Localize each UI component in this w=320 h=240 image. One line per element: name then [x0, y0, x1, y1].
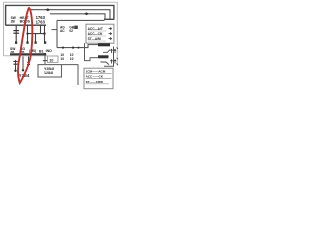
module box bottom edge — [6, 24, 46, 26]
dots on wire y47.5 — [62, 47, 64, 49]
junction dot on bus — [44, 53, 47, 56]
svg-text:10: 10 — [49, 58, 53, 62]
svg-text:ACC—A/T: ACC—A/T — [88, 27, 103, 31]
pin arrows row 2 — [110, 60, 112, 64]
svg-text:1763: 1763 — [36, 19, 46, 24]
switch contact 2 — [101, 62, 110, 65]
connector tick — [43, 60, 47, 62]
fuse symbol bottom-left — [13, 61, 17, 64]
svg-text:ST—A/M: ST—A/M — [88, 37, 101, 41]
small blob component — [74, 26, 78, 29]
svg-text:ACC——CK: ACC——CK — [86, 75, 104, 79]
wire x27.5 — [27, 24, 29, 41]
wire from long wire into bar2 — [85, 43, 91, 60]
horizontal wire y33.5 — [28, 33, 45, 35]
bottom right box — [84, 68, 113, 89]
right connector box — [86, 24, 114, 43]
wire B — [30, 10, 110, 20]
switch contact 1 — [103, 50, 110, 53]
module box top-left (dark border, wire A loop) — [6, 5, 114, 25]
junction diamond on wire B — [46, 8, 51, 11]
svg-text:IND: IND — [46, 49, 53, 53]
long wire y47.5 — [57, 44, 88, 47]
svg-text:02: 02 — [69, 29, 73, 33]
wire x35.5 — [35, 34, 37, 42]
svg-text:ST——CRW: ST——CRW — [86, 80, 104, 84]
svg-text:B1: B1 — [39, 50, 44, 54]
small fuse box — [48, 56, 59, 62]
wire to bottom area — [62, 65, 79, 85]
svg-text:2B: 2B — [11, 19, 16, 23]
pin arrows right edge — [117, 47, 118, 64]
pin dot — [22, 69, 24, 71]
svg-text:ACC—CK: ACC—CK — [88, 32, 103, 36]
junction dot x27.5 — [26, 33, 28, 35]
wire step into bar 1 — [88, 44, 99, 46]
svg-text:1284I: 1284I — [44, 71, 53, 75]
ignition switch bar 2 — [98, 55, 109, 58]
page frame (light outer border) — [4, 2, 118, 66]
pin dot — [14, 70, 16, 72]
switch symbol left — [15, 26, 17, 42]
wire stub into x57 — [52, 29, 58, 31]
wire x40.5 — [40, 24, 42, 33]
wire x45 down to relay box — [44, 54, 46, 64]
pin arrows row 1 — [110, 49, 112, 53]
svg-text:10: 10 — [70, 57, 74, 61]
highlight ellipse (red annotation) — [18, 8, 32, 83]
svg-text:1CM——ACM: 1CM——ACM — [86, 70, 106, 74]
wire x44.5 — [44, 26, 46, 42]
relay box 1284 — [38, 65, 62, 77]
pin dot row y42.5 — [15, 41, 17, 43]
wire right vertical x113.5 — [104, 47, 114, 67]
component x28.5 — [28, 56, 30, 66]
svg-text:(2B): (2B) — [29, 49, 37, 53]
branch wire vertical x57 — [56, 20, 58, 47]
wire step into bar 2 — [90, 57, 99, 59]
wire x23 — [22, 56, 24, 69]
svg-text:10: 10 — [60, 57, 64, 61]
junction diamond on wire C — [84, 12, 89, 15]
ignition switch bar 1 — [98, 43, 110, 46]
shelf wire — [57, 19, 105, 21]
svg-text:AC: AC — [60, 29, 65, 33]
connector bar right — [104, 18, 114, 20]
bus bar y54 — [10, 53, 45, 55]
wire C — [50, 14, 105, 19]
junction dot — [43, 32, 45, 34]
